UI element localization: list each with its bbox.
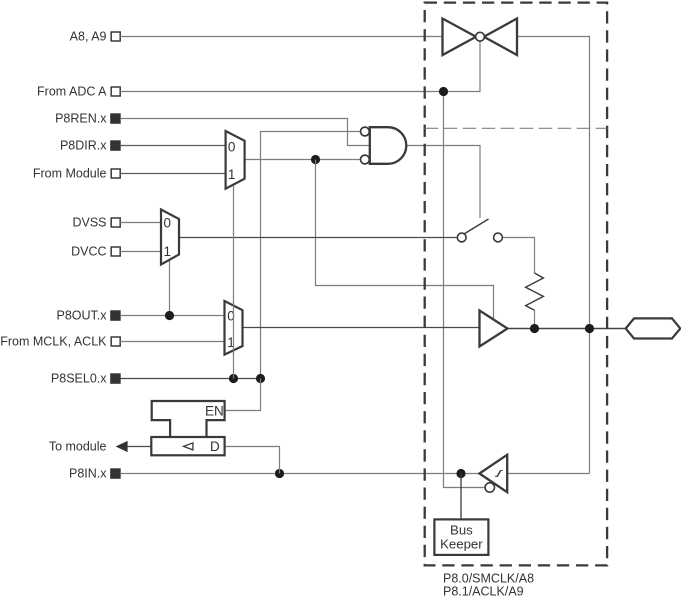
svg-text:From MCLK, ACLK: From MCLK, ACLK (0, 335, 107, 349)
node input buffer output junction (456, 469, 465, 478)
svg-text:0: 0 (164, 216, 172, 231)
schmitt hysteresis symbol (495, 471, 503, 477)
svg-text:To module: To module (49, 440, 107, 454)
wire A8,A9 to analog switch (120, 36, 442, 38)
analog switch left triangle (443, 19, 477, 56)
wire P8SEL0.x row (120, 378, 260, 380)
wire pad column to input buffer (507, 473, 589, 475)
wire ADC enable down to input-buffer bubble (444, 92, 486, 488)
mux U3 P8OUT/MCLK (225, 301, 243, 355)
switch contact right (494, 233, 503, 242)
svg-text:P8OUT.x: P8OUT.x (56, 309, 107, 323)
node resistor pad junction (530, 324, 539, 333)
wire mux U3 output to output driver input (243, 327, 480, 329)
pin square A8, A9 (111, 32, 120, 41)
node pad column junction (585, 324, 594, 333)
svg-text:A8, A9: A8, A9 (70, 30, 107, 44)
wire mux U2 select from P8OUT (169, 259, 171, 315)
wire latch output To module (127, 446, 151, 448)
switch contact left (457, 233, 466, 242)
arrow To module (116, 441, 128, 452)
pad hexagon (626, 318, 681, 338)
wire mux select vertical from P8SEL0 (behind mux U3) (233, 185, 235, 379)
mux U1 P8DIR/From Module (226, 131, 245, 189)
switch lever (464, 219, 489, 234)
svg-text:P8REN.x: P8REN.x (55, 112, 107, 126)
NAND gate U4 body (370, 127, 407, 164)
dashed divider line (425, 127, 607, 129)
svg-text:DVSS: DVSS (72, 216, 106, 230)
svg-text:P8.1/ACLK/A9: P8.1/ACLK/A9 (443, 585, 524, 597)
wire to bus keeper (460, 474, 462, 520)
svg-text:1: 1 (228, 167, 236, 182)
bubble input buffer enable (485, 483, 494, 492)
pin square DVSS (111, 218, 120, 227)
wire switch contact to resistor (502, 238, 534, 274)
wire P8OUT.x to mux U3 input 0 (120, 315, 224, 317)
svg-text:P8.0/SMCLK/A8: P8.0/SMCLK/A8 (443, 572, 534, 586)
resistor R1 (526, 273, 544, 310)
pin square P8REN.x (110, 113, 121, 124)
wire DVSS to mux U2 input 0 (120, 222, 161, 224)
wire P8IN.x row (120, 473, 479, 475)
output driver buffer (480, 311, 508, 347)
wire direction enable to output driver (316, 160, 494, 320)
wire NAND output to switch lever (406, 146, 480, 219)
analog switch right triangle (484, 19, 517, 56)
dashed port boundary box (425, 3, 607, 566)
wire From ADC A to switch bubble (120, 41, 480, 91)
svg-text:D: D (210, 439, 220, 454)
pin square P8IN.x (110, 468, 121, 479)
node P8SEL0 latch enable junction (256, 374, 265, 383)
wire pad line (508, 328, 626, 330)
node P8OUT select junction (165, 311, 174, 320)
svg-text:Keeper: Keeper (440, 536, 483, 551)
wire P8SEL0 up to NAND upper input (261, 132, 361, 379)
pin square P8DIR.x (110, 140, 121, 151)
pin square DVCC (111, 247, 120, 256)
mux U2 DVSS/DVCC (161, 210, 179, 265)
pin square P8OUT.x (110, 310, 121, 321)
svg-text:EN: EN (205, 404, 224, 419)
svg-text:P8SEL0.x: P8SEL0.x (51, 372, 107, 386)
svg-text:P8DIR.x: P8DIR.x (60, 139, 107, 153)
pin square P8SEL0.x (110, 373, 121, 384)
svg-text:P8IN.x: P8IN.x (69, 467, 107, 481)
wire mux U1 output to NAND lower input (245, 159, 361, 161)
analog switch bubble (476, 32, 485, 41)
node ADC enable junction (439, 87, 448, 96)
wire From MCLK, ACLK to mux U3 input 1 (120, 341, 224, 343)
latch clock triangle symbol (184, 443, 193, 450)
svg-text:From Module: From Module (33, 167, 107, 181)
wire latch EN to P8SEL0 (225, 379, 261, 411)
bubble NAND lower input (361, 155, 370, 164)
wire From Module to mux U1 input 1 (120, 173, 225, 175)
bubble NAND upper input (361, 127, 370, 136)
wire P8REN.x to NAND middle input (120, 119, 370, 146)
input buffer (schmitt) (479, 455, 507, 492)
svg-text:From ADC A: From ADC A (37, 85, 107, 99)
svg-text:0: 0 (228, 140, 236, 155)
pin square From MCLK, ACLK (111, 337, 120, 346)
svg-text:1: 1 (164, 244, 172, 259)
pin square From ADC A (111, 87, 120, 96)
wire DVCC to mux U2 input 1 (120, 251, 161, 253)
node direction branch junction (311, 155, 320, 164)
latch upper shape with EN (152, 401, 225, 437)
pin square From Module (111, 169, 120, 178)
wire resistor to pad line (534, 310, 536, 328)
wire mux U2 output to switch contact (179, 237, 457, 239)
latch lower box (151, 437, 224, 455)
svg-text:Bus: Bus (450, 522, 473, 537)
wire latch D to P8IN (225, 447, 280, 474)
bus keeper box (434, 519, 488, 555)
wire analog switch output down pad column (517, 37, 590, 474)
svg-text:DVCC: DVCC (71, 245, 106, 259)
wire P8DIR.x to mux U1 input 0 (120, 145, 225, 147)
node latch D junction (275, 469, 284, 478)
wire mux select vertical overlay through mux U3 (233, 301, 235, 355)
node P8SEL0 mux select junction (229, 374, 238, 383)
